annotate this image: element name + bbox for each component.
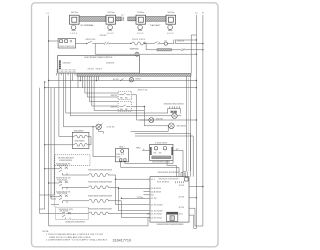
ribbon drop wires nested (78, 76, 144, 110)
svg-text:NO NC: NO NC (120, 97, 128, 99)
svg-text:SU/Sw: SU/Sw (108, 12, 115, 14)
svg-text:XXXXXX: XXXXXX (63, 63, 72, 65)
wire door sw out (132, 107, 169, 126)
svg-text:XXXX XXX: XXXX XXX (85, 39, 96, 41)
border frame (32, 3, 219, 247)
wire latch lower rows (135, 133, 191, 135)
wire lower row2 (146, 49, 157, 51)
svg-text:NO NC: NO NC (120, 109, 128, 111)
pad top right (185, 178, 188, 181)
dashed separator top (55, 155, 90, 166)
lamp door (169, 123, 187, 129)
resistor surface unit 1 (62, 174, 150, 205)
svg-text:NO TERMINAL: NO TERMINAL (81, 24, 95, 27)
heating element ribbon SU3-SU4 (146, 17, 166, 22)
connector plug marks (174, 40, 185, 44)
svg-text:J2 XX: J2 XX (179, 185, 185, 187)
wire to N bus (175, 43, 203, 45)
wire to N bus lower (184, 49, 203, 51)
svg-text:OVEN DOOR CLOSED AND UNLOCKED.: OVEN DOOR CLOSED AND UNLOCKED. (49, 236, 91, 239)
wire door lamp loop (131, 126, 169, 132)
junction on L1 rail (48, 40, 49, 41)
board left pins (147, 179, 150, 217)
oven lamp circle (96, 123, 115, 129)
svg-text:XXXXXX: XXXXXX (106, 63, 115, 65)
heating element stub SU2 right (116, 17, 121, 21)
wire lock board right (173, 150, 183, 176)
svg-text:L1/L2: L1/L2 (70, 33, 77, 35)
svg-text:SU/Sw: SU/Sw (71, 12, 78, 14)
dashed box resistor assembly (56, 207, 89, 220)
surface unit SU2 left-rear (106, 12, 116, 35)
svg-text:XXXX XXXX XXXXXXX XXXX: XXXX XXXX XXXXXXX XXXX (88, 208, 113, 210)
svg-text:XXX XX: XXX XX (177, 41, 185, 43)
wire to L2 bus (175, 39, 196, 41)
wire EOC upper feed (49, 80, 197, 82)
surface unit SU1 left-front (70, 12, 80, 35)
surface unit SU4 right-rear (166, 12, 176, 35)
wires right pins to buses (193, 187, 203, 229)
svg-text:J2 XX: J2 XX (179, 196, 185, 198)
clock TOD box (58, 39, 76, 49)
switch contacts pair (95, 42, 130, 45)
svg-text:1 CIRCUIT SHOWN WITH ALL CONT: 1 CIRCUIT SHOWN WITH ALL CONTROLS OFF TO… (46, 233, 104, 236)
switch on feed wire (120, 79, 123, 81)
svg-text:J2 A XXXX: J2 A XXXX (151, 190, 162, 193)
wire L1 rail (48, 16, 50, 226)
wire sw3 feed (51, 196, 59, 198)
svg-text:XXXX XXXX: XXXX XXXX (132, 39, 146, 41)
svg-text:J1 XX: J1 XX (151, 198, 157, 200)
wire risers to control board (191, 134, 194, 177)
connector P1 bar (59, 60, 61, 69)
svg-text:XXX XXXX: XXX XXXX (177, 126, 187, 128)
warning triangle note (113, 78, 148, 92)
svg-text:316417710: 316417710 (113, 239, 131, 243)
switch infinite 3 (59, 195, 68, 203)
tick top right (191, 34, 196, 36)
svg-text:XXXX XXXX XXXXXXX XXXX: XXXX XXXX XXXXXXX XXXX (88, 182, 113, 184)
wire pin drops (59, 75, 168, 136)
svg-text:ELECTRONIC OVEN CONTROL: ELECTRONIC OVEN CONTROL (85, 57, 114, 59)
switch double-slash (181, 48, 184, 51)
svg-text:J2 X: J2 X (179, 214, 184, 216)
svg-text:XXXX XXXX XXXXXXX XXXX: XXXX XXXX XXXXXXX XXXX (88, 195, 113, 197)
svg-text:SU/Sw: SU/Sw (168, 12, 175, 14)
wires left pin links (141, 192, 148, 218)
lamp oven light (135, 52, 139, 56)
wire sw2 feed (49, 182, 59, 184)
svg-text:XXX XXXXX: XXX XXXXX (157, 181, 170, 183)
svg-text:X XX XX: X XX XX (107, 127, 116, 129)
board surface unit control (150, 177, 189, 222)
switch door (86, 41, 95, 44)
lamp OL indicator (164, 42, 174, 45)
wire sw1 to element (45, 168, 59, 170)
svg-text:XXXXXX XXXX XXXXX: XXXXXX XXXX XXXXX (164, 104, 185, 106)
wire from TOD box (76, 43, 87, 45)
svg-text:XX XX: XX XX (154, 152, 162, 154)
svg-text:XXXX: XXXX (135, 78, 141, 80)
motor MDL box (115, 147, 128, 162)
heating element ribbon SU1-SU2 (79, 17, 106, 28)
svg-text:XX-XX XX-XX: XX-XX XX-XX (88, 68, 103, 70)
svg-text:J1 XX XXXX: J1 XX XXXX (151, 211, 163, 213)
svg-text:XXX XXXX: XXX XXXX (57, 193, 68, 195)
element box bake broil (72, 130, 89, 148)
svg-text:J2 XX X/XX: J2 XX X/XX (151, 217, 162, 219)
ribbon cable vertical (181, 76, 191, 177)
dashed enclosure left edge (54, 166, 56, 208)
svg-text:XXX XXXXXXX XXXX: XXX XXXXXXX XXXX (152, 162, 171, 164)
switch infinite 2 (59, 181, 68, 189)
wire band to slash switch (171, 49, 181, 51)
resistor oven-vent zigzag (130, 42, 146, 45)
wire L1 to TOD box (49, 40, 59, 42)
ribbon cable horizontal (77, 73, 191, 76)
svg-text:XXXX XXXX XXXXXXX XXXX: XXXX XXXX XXXXXXX XXXX (88, 169, 113, 171)
svg-text:XXXXX: XXXXX (100, 35, 108, 37)
svg-text:L1/L2: L1/L2 (167, 33, 174, 35)
wire sw4 feed (40, 212, 63, 214)
svg-text:XXX: XXX (116, 156, 121, 158)
EOC bottom pin stubs (57, 73, 75, 75)
svg-text:XXX XXXX: XXX XXXX (57, 165, 68, 167)
motor latch (167, 113, 182, 118)
svg-text:XXXXXXXX XXXXXXXX: XXXXXXXX XXXXXXXX (158, 172, 181, 174)
svg-text:XXXX XXXX XX: XXXX XXXX XX (59, 46, 75, 48)
board right pins (189, 187, 193, 216)
wire lock board left (142, 149, 150, 151)
wire L2 bus (195, 15, 197, 226)
switch door (dashed box) (118, 102, 132, 112)
svg-text:XXX XXXX: XXX XXXX (57, 179, 68, 181)
svg-text:XX XXXX: XX XXXX (60, 211, 70, 213)
wire lamp drops (93, 127, 115, 157)
svg-text:MFL*: MFL* (136, 147, 141, 149)
svg-text:2-**: 2-** (121, 15, 125, 17)
svg-text:SU/Sw: SU/Sw (137, 12, 144, 14)
svg-text:J2 XX: J2 XX (179, 207, 185, 209)
harness band oven door (157, 49, 171, 51)
wire lock board to board2 (167, 161, 176, 177)
heating element stub SU3 left (128, 17, 136, 21)
svg-text:J1 XX XXXX: J1 XX XXXX (151, 205, 163, 207)
wire zigzag to corner (144, 44, 146, 50)
wire row2 right (146, 43, 154, 45)
switch lock (dashed box) (118, 91, 132, 99)
connector pins top right (176, 181, 184, 183)
wire MDL right out (125, 160, 173, 163)
transformer on board (167, 212, 178, 221)
svg-text:XXX XX: XXX XX (156, 119, 164, 121)
controller EOC electronic oven control (58, 55, 140, 73)
wire lock sw out (132, 95, 197, 120)
svg-text:XX XX XX XX XX: XX XX XX XX XX (57, 72, 77, 74)
svg-text:J2 XX X/XX: J2 XX X/XX (151, 214, 162, 216)
switch infinite 4 (62, 212, 71, 219)
switch infinite 1 (59, 167, 68, 175)
svg-text:XXX XXXXX: XXX XXXXX (75, 140, 86, 142)
wire riser right (190, 35, 192, 73)
svg-text:XXXXXXX XXXX XXXXXXX XXXXX: XXXXXXX XXXX XXXXXXX XXXXX (157, 224, 185, 226)
svg-text:XXXXXX XXXXXXX: XXXXXX XXXXXXX (159, 178, 180, 180)
switch oven door (154, 42, 164, 45)
board lock interface (150, 142, 174, 163)
svg-text:XXX X XX: XXX X XX (138, 89, 148, 91)
label left pin names (151, 179, 163, 219)
rail elbows bottom (40, 195, 60, 209)
wire MDL bottom drop (121, 161, 179, 177)
wire oven lamp feed (64, 126, 97, 128)
surface unit SU3 right-front (136, 12, 161, 35)
svg-text:XXX XX: XXX XX (111, 107, 118, 109)
svg-text:L1/L2: L1/L2 (137, 33, 144, 35)
resistor surface unit 4 (65, 212, 150, 215)
svg-text:XXXXXXX XXXXXXXX*: XXXXXXX XXXXXXXX* (65, 221, 85, 223)
svg-text:X XXXX XXXXX: X XXXX XXXXX (59, 160, 73, 162)
wire EOC lower feed (45, 87, 197, 89)
svg-text:J1 A XXXX: J1 A XXXX (151, 187, 162, 190)
svg-text:XXX XX: XXX XX (111, 95, 118, 97)
svg-text:* RADIANT: * RADIANT (149, 24, 162, 27)
connector rotary latch comb (168, 106, 181, 113)
wire bake feeds (45, 137, 91, 145)
svg-text:2 COMPONENTS WITH * DO NOT AP: 2 COMPONENTS WITH * DO NOT APPLY ON ALL … (46, 239, 108, 242)
resistor surface unit 2 (62, 186, 150, 211)
svg-text:17*/Sw: 17*/Sw (137, 197, 144, 199)
resistor surface unit 3 (62, 198, 143, 218)
svg-text:XXXX XXXX: XXXX XXXX (130, 49, 140, 51)
lamp lock indicator (149, 118, 164, 123)
wire N bus (202, 15, 204, 226)
wire L1 bottom wrap (49, 218, 150, 226)
svg-text:NOTE:: NOTE: (42, 231, 49, 233)
wire lamp to L2 bus (139, 53, 196, 55)
svg-text:L1/L2: L1/L2 (107, 33, 114, 35)
svg-text:J/L*: J/L* (176, 149, 180, 151)
label right pin names (179, 185, 185, 216)
left rails (40, 82, 55, 213)
wire drop to lamp row (95, 44, 135, 55)
wire latch row (140, 119, 149, 121)
